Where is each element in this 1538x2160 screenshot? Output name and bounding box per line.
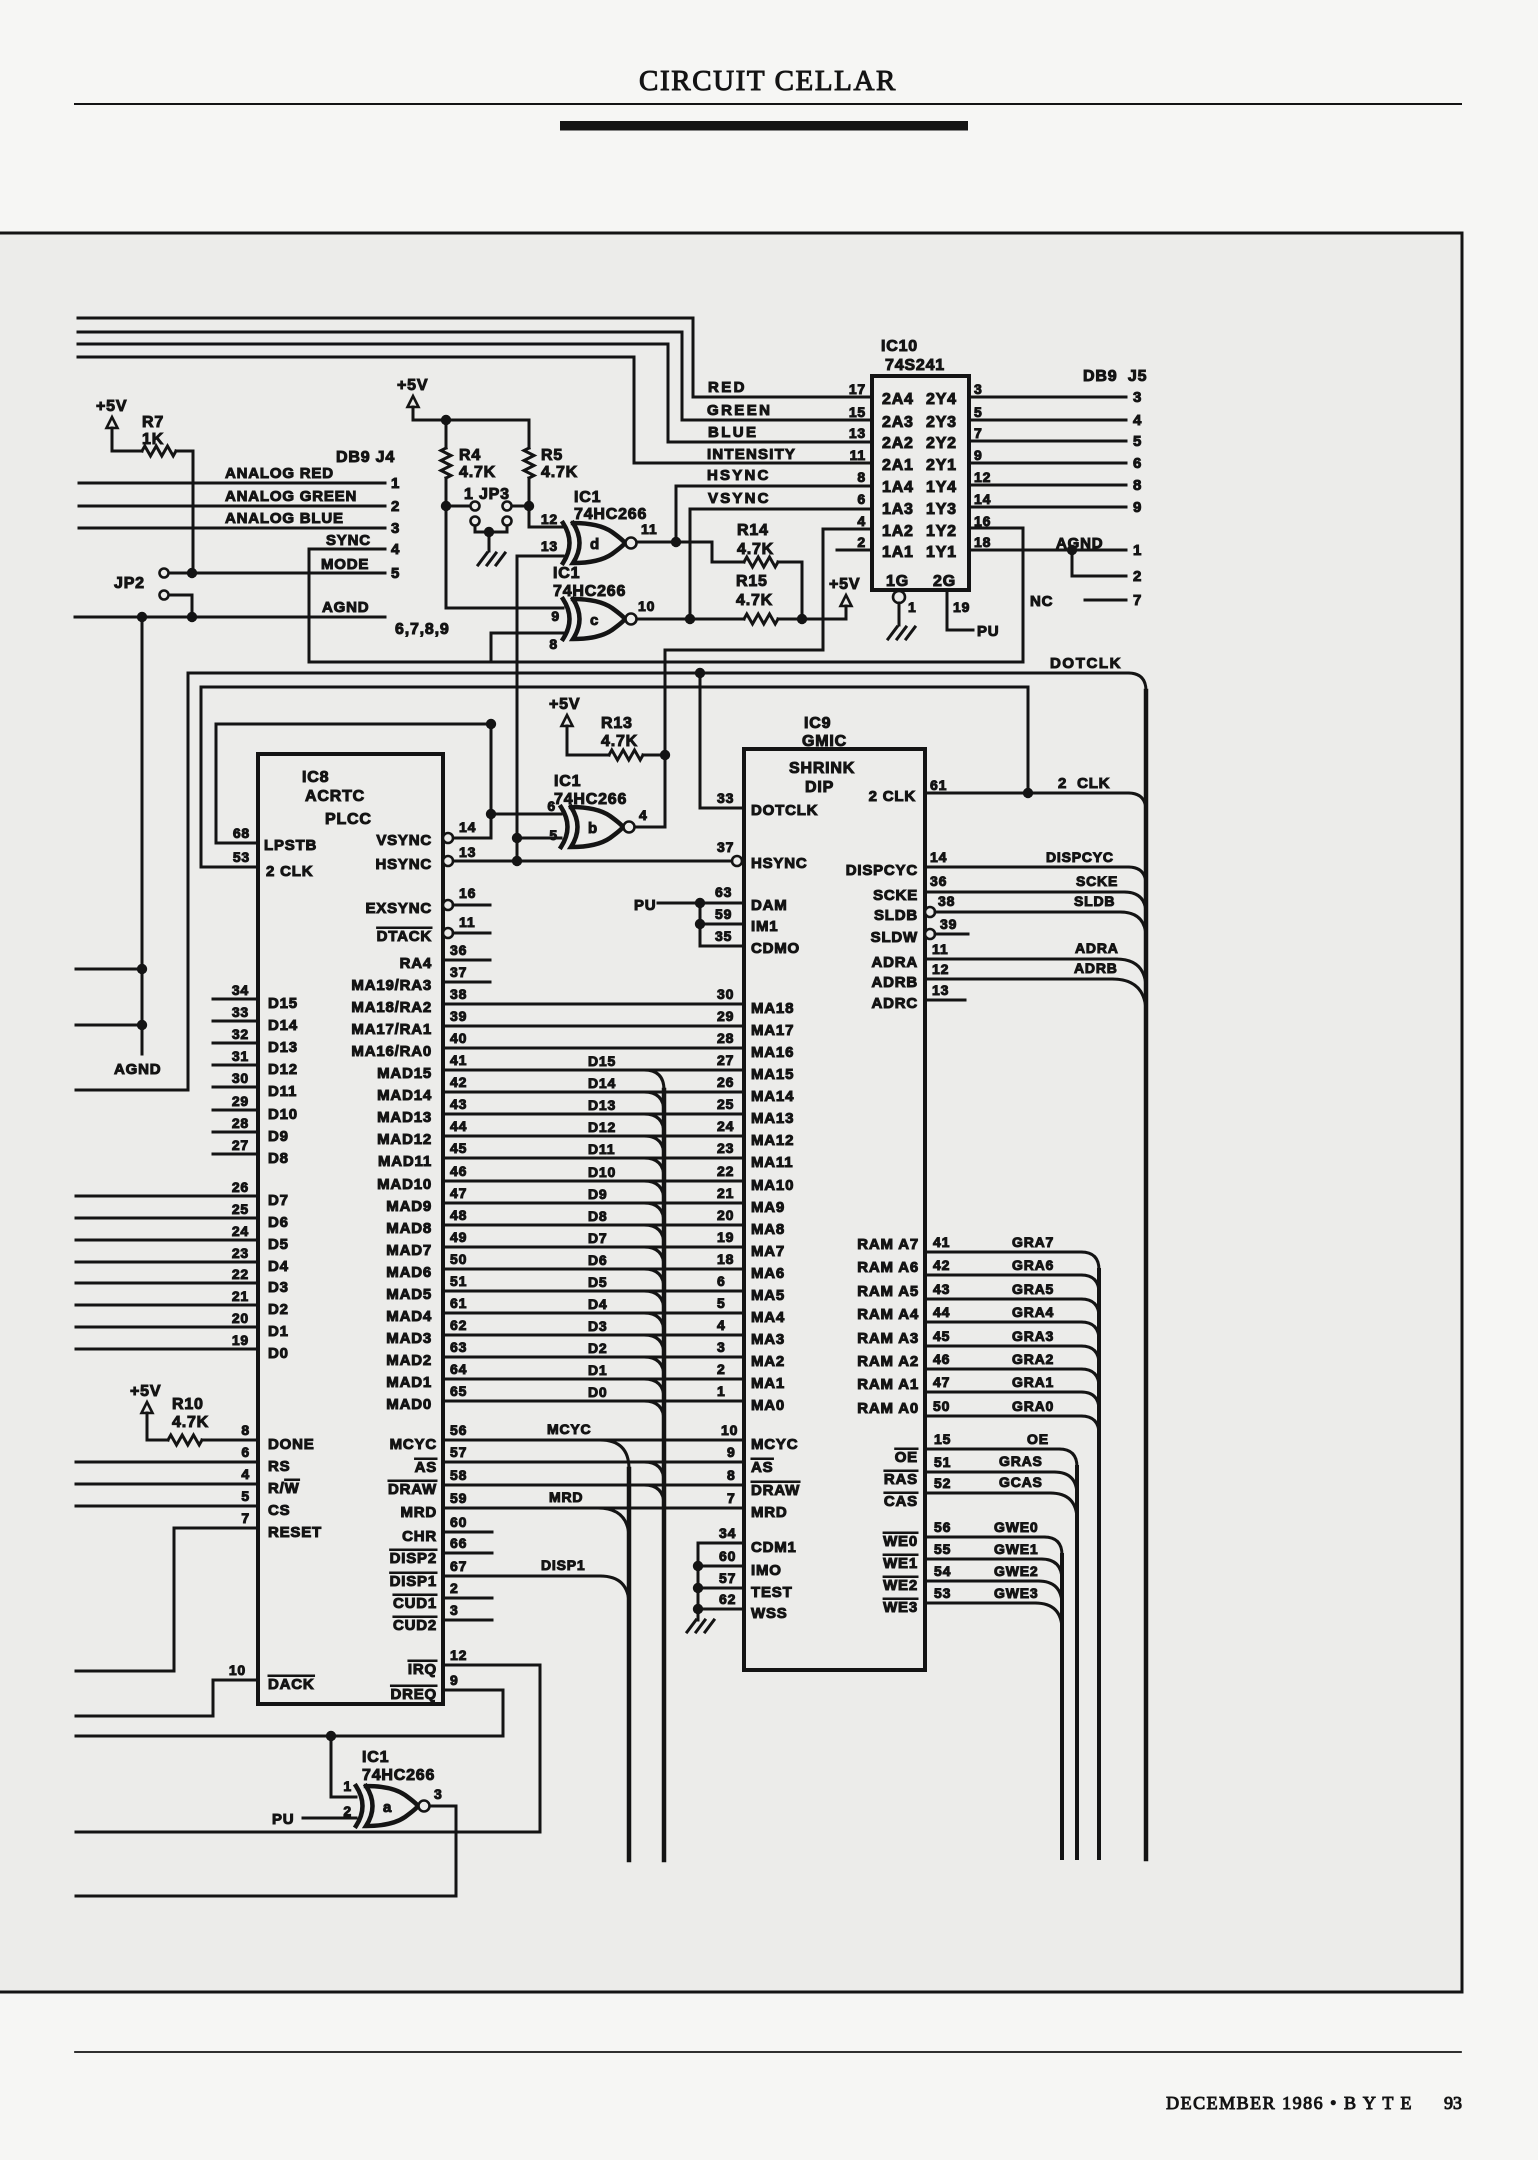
svg-text:22: 22: [717, 1163, 734, 1179]
node R5 JP3 junction: [524, 501, 534, 511]
svg-text:PLCC: PLCC: [325, 811, 372, 828]
svg-text:b: b: [588, 820, 598, 837]
wire PU to gate a pin 2: [303, 1817, 356, 1820]
svg-text:23: 23: [717, 1140, 734, 1156]
wire MAD12 IC8 pin 44 to IC9 MA12 with branch to memory bus: [443, 1135, 744, 1138]
node gate c output VSYNC junction: [685, 614, 695, 624]
svg-text:1: 1: [908, 599, 917, 615]
node JP2 AGND junction: [187, 612, 197, 622]
svg-text:RAM A6: RAM A6: [857, 1259, 919, 1276]
svg-text:11: 11: [641, 521, 657, 537]
wire DREQ IC8 pin 9 to gate a net: [76, 1690, 503, 1736]
svg-text:46: 46: [450, 1163, 467, 1179]
wire data D0 from left edge to IC8 pin 19: [76, 1348, 258, 1351]
wire data D12 stub to IC8 pin 31: [213, 1064, 258, 1067]
svg-text:D6: D6: [268, 1214, 289, 1231]
svg-text:41: 41: [933, 1234, 950, 1250]
svg-text:MAD11: MAD11: [378, 1153, 432, 1170]
svg-text:MA2: MA2: [751, 1353, 785, 1370]
IC9 pin 37 HSYNC: [732, 856, 742, 866]
wire data D6 from left edge to IC8 pin 25: [76, 1217, 258, 1220]
svg-text:D14: D14: [588, 1075, 616, 1091]
wire DOTCLK to IC9 pin 33: [700, 673, 744, 808]
wire DRAW IC8 pin 58 to IC9 pin 8 with branch: [443, 1484, 744, 1487]
svg-text:RAM A7: RAM A7: [857, 1236, 919, 1253]
node IC8 HSYNC junction: [512, 856, 522, 866]
svg-text:MA9: MA9: [751, 1199, 785, 1216]
svg-text:18: 18: [717, 1251, 734, 1267]
wire IC10 2G pin 19 to PU: [947, 590, 973, 630]
node R13 junction: [660, 750, 670, 760]
svg-text:9: 9: [450, 1672, 459, 1688]
wire GWE0 IC9 pin 56: [925, 1536, 1044, 1539]
svg-text:8: 8: [1133, 477, 1142, 494]
svg-text:20: 20: [717, 1207, 734, 1223]
wire data D7 from left edge to IC8 pin 26: [76, 1195, 258, 1198]
svg-text:3: 3: [1133, 389, 1142, 406]
svg-text:DAM: DAM: [751, 897, 788, 914]
svg-text:MAD15: MAD15: [377, 1065, 432, 1082]
svg-text:2Y2: 2Y2: [926, 435, 957, 452]
svg-text:21: 21: [717, 1185, 734, 1201]
svg-text:5: 5: [391, 565, 400, 582]
svg-text:33: 33: [232, 1004, 249, 1020]
svg-text:GRA0: GRA0: [1012, 1398, 1054, 1414]
svg-text:2Y1: 2Y1: [926, 457, 957, 474]
node AGND left branch: [137, 612, 147, 622]
svg-text:MAD0: MAD0: [386, 1396, 432, 1413]
wire IC10 1Y3 to J5 pin 9: [969, 506, 1126, 509]
svg-text:2Y3: 2Y3: [926, 414, 957, 431]
svg-text:74HC266: 74HC266: [554, 791, 627, 808]
svg-text:GREEN: GREEN: [707, 402, 772, 419]
svg-text:MAD10: MAD10: [377, 1176, 432, 1193]
svg-text:4: 4: [391, 541, 400, 558]
wire gate b output to IC10 1A2: [635, 529, 872, 827]
wire R4 to JP3 pin1: [446, 505, 470, 508]
svg-text:MA4: MA4: [751, 1309, 785, 1326]
svg-text:4: 4: [639, 807, 648, 823]
svg-text:PU: PU: [272, 1811, 294, 1828]
svg-text:2A3: 2A3: [882, 414, 914, 431]
IC IC9 GMIC SHRINK DIP box: [744, 749, 925, 1670]
IC8 pin 60 CHR stub: [443, 1531, 492, 1534]
svg-text:R14: R14: [737, 522, 769, 539]
svg-text:2 CLK: 2 CLK: [869, 788, 916, 805]
svg-text:35: 35: [715, 928, 732, 944]
svg-text:MAD5: MAD5: [386, 1286, 432, 1303]
svg-text:5: 5: [1133, 433, 1142, 450]
svg-text:CIRCUIT CELLAR: CIRCUIT CELLAR: [639, 65, 897, 97]
wire MAD10 IC8 pin 46 to IC9 MA10 with branch to memory bus: [443, 1180, 744, 1183]
wire data D9 stub to IC8 pin 28: [213, 1131, 258, 1134]
IC9 right pin 12 ADRB: [925, 978, 1112, 981]
svg-text:8: 8: [727, 1467, 736, 1483]
svg-text:R15: R15: [736, 573, 768, 590]
svg-text:39: 39: [940, 916, 957, 932]
svg-text:SCKE: SCKE: [1076, 873, 1118, 889]
svg-text:VSYNC: VSYNC: [708, 490, 771, 507]
svg-text:RESET: RESET: [268, 1524, 322, 1541]
wire gate d output to HSYNC net: [637, 541, 712, 544]
wire R5 down to gate d pin 12: [529, 506, 563, 527]
svg-text:25: 25: [717, 1096, 734, 1112]
svg-text:R13: R13: [601, 715, 633, 732]
svg-text:MA7: MA7: [751, 1243, 785, 1260]
svg-text:50: 50: [933, 1398, 950, 1414]
svg-text:10: 10: [229, 1662, 246, 1678]
IC8 pin 6 RS: [76, 1461, 258, 1464]
svg-text:29: 29: [232, 1093, 249, 1109]
svg-text:BLUE: BLUE: [708, 424, 758, 441]
svg-text:INTENSITY: INTENSITY: [707, 446, 796, 463]
svg-text:DISPCYC: DISPCYC: [846, 862, 918, 879]
node JP3 ground junction: [484, 527, 494, 537]
IC9 right pin 11 ADRA: [925, 958, 1116, 961]
svg-text:14: 14: [974, 491, 991, 507]
svg-text:DACK: DACK: [268, 1676, 315, 1693]
svg-text:SLDB: SLDB: [1074, 893, 1115, 909]
svg-text:SLDW: SLDW: [871, 929, 918, 946]
wire MAD8 IC8 pin 48 to IC9 MA8 with branch to memory bus: [443, 1224, 744, 1227]
svg-text:HSYNC: HSYNC: [751, 855, 808, 872]
wire MAD9 IC8 pin 47 to IC9 MA9 with branch to memory bus: [443, 1202, 744, 1205]
svg-text:13: 13: [541, 538, 558, 554]
wire MAD7 IC8 pin 49 to IC9 MA7 with branch to memory bus: [443, 1246, 744, 1249]
svg-text:WSS: WSS: [751, 1605, 788, 1622]
svg-text:48: 48: [450, 1207, 467, 1223]
resistor R7 1K: [112, 428, 142, 451]
svg-text:9: 9: [551, 608, 560, 624]
svg-text:3: 3: [391, 520, 400, 537]
footer rule: [75, 2051, 1461, 2053]
wire MAD4 IC8 pin 61 to IC9 MA4 with branch to memory bus: [443, 1312, 744, 1315]
svg-text:D15: D15: [268, 995, 298, 1012]
svg-text:4: 4: [717, 1317, 726, 1333]
wire MAD3 IC8 pin 62 to IC9 MA3 with branch to memory bus: [443, 1334, 744, 1337]
svg-text:MA18: MA18: [751, 1000, 794, 1017]
svg-text:17: 17: [849, 381, 866, 397]
svg-text:MA16: MA16: [751, 1044, 794, 1061]
wire OE IC9 pin 15: [925, 1448, 1059, 1451]
svg-text:MA5: MA5: [751, 1287, 785, 1304]
resistor R5 4.7K: [528, 420, 531, 448]
svg-text:GWE3: GWE3: [994, 1585, 1038, 1601]
IC8 pin 2 CUD1 stub: [443, 1597, 492, 1600]
svg-text:MA16/RA0: MA16/RA0: [351, 1043, 432, 1060]
IC8 pin 66 DISP2 stub: [443, 1552, 492, 1555]
svg-text:NC: NC: [1030, 593, 1053, 610]
wire RAS CAS OE bus vertical: [1075, 1467, 1079, 1858]
wire data D10 stub to IC8 pin 29: [213, 1109, 258, 1112]
wire clock control bus vertical: [1144, 691, 1149, 1859]
svg-text:26: 26: [717, 1074, 734, 1090]
wire MAD0 IC8 pin 65 to IC9 MA0 with branch to memory bus: [443, 1400, 744, 1403]
node R14 R15 pullup junction: [797, 614, 807, 624]
svg-text:D1: D1: [588, 1362, 608, 1378]
svg-text:MAD13: MAD13: [377, 1109, 432, 1126]
svg-text:AS: AS: [415, 1459, 437, 1476]
svg-text:D9: D9: [588, 1186, 608, 1202]
svg-text:R4: R4: [459, 447, 481, 464]
wire data D8 stub to IC8 pin 27: [213, 1153, 258, 1156]
svg-text:9: 9: [1133, 499, 1142, 516]
svg-text:IC9: IC9: [804, 715, 831, 732]
wire RED bus from left edge: [78, 318, 872, 397]
node R4 top junction: [441, 415, 451, 425]
wire JP2 pin1 to MODE: [169, 572, 192, 575]
svg-text:67: 67: [450, 1558, 467, 1574]
svg-text:D8: D8: [588, 1208, 608, 1224]
svg-text:MA6: MA6: [751, 1265, 785, 1282]
wire HSYNC to IC10 1A4: [676, 486, 872, 542]
svg-text:IRQ: IRQ: [408, 1661, 437, 1678]
svg-text:GWE0: GWE0: [994, 1519, 1038, 1535]
IC9 pin 57 TEST: [693, 1583, 703, 1593]
svg-text:13: 13: [932, 982, 949, 998]
svg-text:MA12: MA12: [751, 1132, 794, 1149]
wire R4 down to gate c pin 9: [446, 506, 563, 608]
svg-text:ADRC: ADRC: [871, 995, 918, 1012]
wire MAD5 IC8 pin 51 to IC9 MA5 with branch to memory bus: [443, 1290, 744, 1293]
schematic panel background: [0, 233, 1462, 1992]
wire GRA6 IC9 pin 42 to RAM address bus: [925, 1274, 1081, 1277]
svg-text:DOTCLK: DOTCLK: [751, 802, 818, 819]
svg-text:ANALOG BLUE: ANALOG BLUE: [225, 510, 344, 527]
svg-text:12: 12: [932, 961, 949, 977]
svg-text:1Y4: 1Y4: [926, 479, 957, 496]
wire 2CLK pin 53 stub: [201, 866, 258, 869]
wire ANALOG GREEN to J4 pin 2: [79, 505, 385, 508]
svg-text:ADRA: ADRA: [871, 954, 918, 971]
svg-text:D2: D2: [268, 1301, 289, 1318]
svg-text:5: 5: [974, 404, 983, 420]
IC8 pin 4 R/W: [76, 1483, 258, 1486]
svg-text:7: 7: [1133, 592, 1142, 609]
svg-text:30: 30: [717, 986, 734, 1002]
wire data D5 from left edge to IC8 pin 24: [76, 1239, 258, 1242]
svg-text:GRA7: GRA7: [1012, 1234, 1054, 1250]
svg-text:2 CLK: 2 CLK: [1058, 775, 1110, 792]
svg-text:1A3: 1A3: [882, 501, 914, 518]
svg-text:SLDB: SLDB: [874, 907, 918, 924]
svg-text:LPSTB: LPSTB: [264, 837, 317, 854]
svg-text:51: 51: [934, 1454, 951, 1470]
svg-text:12: 12: [541, 511, 558, 527]
svg-text:MRD: MRD: [751, 1504, 788, 1521]
svg-text:2G: 2G: [933, 573, 956, 590]
svg-text:SCKE: SCKE: [873, 887, 918, 904]
svg-text:MAD14: MAD14: [377, 1087, 432, 1104]
svg-text:WE1: WE1: [883, 1555, 918, 1572]
svg-text:19: 19: [232, 1332, 249, 1348]
svg-text:GRAS: GRAS: [999, 1453, 1043, 1469]
wire MA16 IC8 pin 40 to IC9 pin 28: [443, 1047, 744, 1050]
IC8 pin 3 CUD2 stub: [443, 1619, 492, 1622]
svg-text:MAD1: MAD1: [386, 1374, 432, 1391]
svg-text:RAS: RAS: [884, 1471, 918, 1488]
svg-text:11: 11: [932, 941, 948, 957]
svg-text:1 JP3: 1 JP3: [464, 486, 510, 503]
svg-text:6: 6: [717, 1273, 726, 1289]
node DOTCLK to IC9 junction: [695, 668, 705, 678]
wire R7 to JP2: [176, 451, 193, 573]
svg-text:MA13: MA13: [751, 1110, 794, 1127]
svg-text:IC1: IC1: [362, 1749, 389, 1766]
svg-text:4: 4: [241, 1466, 250, 1482]
wire VSYNC vertical to gate b pin 6: [490, 724, 493, 838]
svg-text:DTACK: DTACK: [377, 928, 432, 945]
IC9 right pin 38 SLDB: [925, 907, 935, 917]
wire GREEN bus from left edge: [78, 332, 872, 420]
svg-text:DB9 J4: DB9 J4: [336, 449, 395, 466]
svg-text:MA15: MA15: [751, 1066, 794, 1083]
wire 2 CLK from IC8 pin 53 to IC9 pin 61: [201, 687, 1028, 867]
svg-text:D0: D0: [268, 1345, 289, 1362]
svg-text:28: 28: [717, 1030, 734, 1046]
svg-text:d: d: [590, 536, 600, 553]
wire +5V rail to R4 R5: [413, 407, 529, 420]
wire AS IC8 pin 57 to IC9 pin 9 with branch: [443, 1461, 744, 1464]
svg-text:1Y1: 1Y1: [926, 544, 957, 561]
svg-text:5: 5: [241, 1488, 250, 1504]
header thick bar: [560, 121, 968, 131]
svg-text:24: 24: [232, 1223, 249, 1239]
svg-text:4.7K: 4.7K: [459, 464, 496, 481]
wire MAD2 IC8 pin 63 to IC9 MA2 with branch to memory bus: [443, 1356, 744, 1359]
svg-text:1: 1: [1133, 542, 1142, 559]
svg-text:26: 26: [232, 1179, 249, 1195]
svg-text:4.7K: 4.7K: [601, 733, 638, 750]
IC9 pin 62 WSS: [693, 1604, 703, 1614]
wire IC10 2Y3 to J5 pin 4: [969, 419, 1126, 422]
svg-text:MCYC: MCYC: [751, 1436, 798, 1453]
wire AGND bus down left side: [141, 617, 144, 1054]
IC IC8 ACRTC PLCC box: [258, 754, 443, 1704]
svg-text:64: 64: [450, 1361, 467, 1377]
svg-text:D2: D2: [588, 1340, 608, 1356]
wire IC10 1Y1 AGND to J5 pin 1: [969, 549, 1126, 552]
svg-text:GWE2: GWE2: [994, 1563, 1038, 1579]
ground IC10 1G: [888, 627, 897, 639]
svg-text:DIP: DIP: [805, 779, 834, 796]
svg-text:16: 16: [459, 885, 476, 901]
svg-text:DB9 J5: DB9 J5: [1083, 368, 1147, 385]
wire GRA7 IC9 pin 41 to RAM address bus: [925, 1251, 1081, 1254]
svg-text:+5V: +5V: [130, 1383, 161, 1400]
svg-text:D5: D5: [268, 1236, 289, 1253]
svg-text:CAS: CAS: [884, 1493, 918, 1510]
svg-text:MA18/RA2: MA18/RA2: [351, 999, 432, 1016]
wire GRA4 IC9 pin 44 to RAM address bus: [925, 1321, 1081, 1324]
svg-text:53: 53: [934, 1585, 951, 1601]
svg-text:2A1: 2A1: [882, 457, 914, 474]
svg-text:R5: R5: [541, 447, 563, 464]
svg-text:D9: D9: [268, 1128, 289, 1145]
wire IRQ IC8 pin 12 to left edge: [76, 1665, 540, 1832]
svg-text:1K: 1K: [142, 431, 164, 448]
svg-text:39: 39: [450, 1008, 467, 1024]
svg-text:D7: D7: [268, 1192, 289, 1209]
svg-text:4.7K: 4.7K: [736, 592, 773, 609]
svg-text:33: 33: [717, 790, 734, 806]
svg-text:GRA2: GRA2: [1012, 1351, 1054, 1367]
svg-text:1: 1: [343, 1778, 352, 1794]
wire AGND stub upper: [76, 968, 142, 971]
svg-text:66: 66: [450, 1535, 467, 1551]
svg-text:2: 2: [717, 1361, 726, 1377]
svg-text:MAD7: MAD7: [386, 1242, 432, 1259]
svg-text:MA10: MA10: [751, 1177, 794, 1194]
wire NC to J5 pin 7: [1085, 599, 1126, 602]
svg-text:D13: D13: [588, 1097, 616, 1113]
svg-text:MA0: MA0: [751, 1397, 785, 1414]
svg-text:AS: AS: [751, 1459, 773, 1476]
wire BLUE bus from left edge: [78, 344, 872, 442]
svg-text:D15: D15: [588, 1053, 616, 1069]
wire display bus vertical: [627, 1469, 632, 1860]
header thin rule: [75, 103, 1461, 105]
svg-text:4.7K: 4.7K: [541, 464, 578, 481]
wire GCAS IC9 pin 52: [925, 1492, 1050, 1495]
svg-text:IC1: IC1: [554, 773, 581, 790]
svg-text:65: 65: [450, 1383, 467, 1399]
svg-text:2A2: 2A2: [882, 435, 914, 452]
wire data D14 stub to IC8 pin 33: [213, 1020, 258, 1023]
svg-text:AGND: AGND: [1056, 535, 1103, 552]
svg-text:D13: D13: [268, 1039, 298, 1056]
wire MAD6 IC8 pin 50 to IC9 MA6 with branch to memory bus: [443, 1268, 744, 1271]
svg-text:D11: D11: [588, 1141, 615, 1157]
svg-text:+5V: +5V: [549, 696, 580, 713]
svg-text:D7: D7: [588, 1230, 608, 1246]
svg-text:27: 27: [717, 1052, 734, 1068]
svg-text:GMIC: GMIC: [802, 733, 847, 750]
IC IC10 74S241 box: [872, 376, 969, 590]
svg-text:R7: R7: [142, 414, 164, 431]
svg-text:AGND: AGND: [322, 599, 369, 616]
svg-text:GCAS: GCAS: [999, 1474, 1043, 1490]
svg-text:WE2: WE2: [883, 1577, 918, 1594]
svg-text:D12: D12: [588, 1119, 616, 1135]
svg-text:DISPCYC: DISPCYC: [1046, 849, 1114, 865]
svg-text:1A2: 1A2: [882, 523, 914, 540]
wire IC10 1A1 stub pin 2: [837, 549, 872, 552]
IC8 pin 5 CS: [76, 1505, 258, 1508]
svg-text:60: 60: [719, 1548, 736, 1564]
svg-text:7: 7: [241, 1510, 250, 1526]
wire MA18 IC8 pin 38 to IC9 pin 30: [443, 1003, 744, 1006]
svg-text:6: 6: [857, 491, 866, 507]
svg-text:44: 44: [933, 1304, 950, 1320]
IC9 right pin 36 SCKE: [925, 891, 1124, 894]
wire IC10 2Y4 to J5 pin 3: [969, 396, 1126, 399]
IC9 pin 60 IMO: [693, 1561, 703, 1571]
wire MAD11 IC8 pin 45 to IC9 MA11 with branch to memory bus: [443, 1157, 744, 1160]
svg-text:60: 60: [450, 1514, 467, 1530]
wire GRA3 IC9 pin 45 to RAM address bus: [925, 1345, 1081, 1348]
ground JP3: [478, 553, 487, 565]
svg-text:2: 2: [391, 498, 400, 515]
svg-text:45: 45: [450, 1140, 467, 1156]
svg-text:62: 62: [450, 1317, 467, 1333]
svg-text:c: c: [590, 612, 599, 629]
svg-text:7: 7: [727, 1490, 736, 1506]
node gate a pin1 junction: [326, 1731, 336, 1741]
svg-text:1A4: 1A4: [882, 479, 914, 496]
wire INTENSITY bus from left edge: [78, 357, 872, 463]
resistor R14 4.7K: [712, 542, 744, 562]
